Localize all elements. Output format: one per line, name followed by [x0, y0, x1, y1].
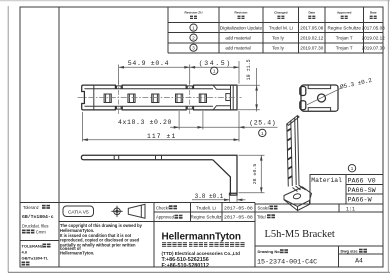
svg-text:2019.07.30: 2019.07.30: [300, 46, 323, 51]
svg-text:Date: Date: [308, 11, 315, 15]
svg-text:4x18.3 ±0.20: 4x18.3 ±0.20: [118, 119, 172, 126]
svg-text:(TTD) Electrical accessories C: (TTD) Electrical accessories Co.,Ltd: [162, 251, 241, 256]
svg-text:TOLERANZ/: TOLERANZ/: [22, 243, 46, 248]
revision table: [168, 7, 383, 53]
CATIA V5 box: [63, 206, 94, 217]
notch tab plugs: [117, 86, 122, 89]
svg-text:HellermannTyton.: HellermannTyton.: [60, 250, 94, 255]
leader line for dia 5.3: [307, 88, 341, 105]
svg-text:GB/T±1804-TL: GB/T±1804-TL: [22, 255, 49, 260]
svg-text:Check/: Check/: [156, 205, 170, 210]
projection symbol: [111, 204, 145, 218]
svg-text:Date: Date: [370, 11, 377, 15]
dimension 28 +-0.5 lines: [239, 155, 265, 193]
dimension 54.9 +-0.4 and (34.5) extension and dim lines: [119, 61, 239, 84]
svg-text:L5h-M5 Bracket: L5h-M5 Bracket: [265, 229, 335, 240]
svg-text:2017.05.08: 2017.05.08: [362, 26, 385, 31]
left slots (stadium shapes): [300, 87, 306, 96]
svg-text:4.6: 4.6: [22, 249, 28, 254]
svg-text:HellermannTyton: HellermannTyton: [162, 231, 241, 242]
svg-text:Revision: Revision: [235, 11, 248, 15]
inner rail lines: [84, 88, 213, 90]
left filing column line: [58, 7, 60, 267]
svg-text:PA66-SW: PA66-SW: [348, 187, 377, 195]
svg-text:28 ±0.5: 28 ±0.5: [252, 164, 258, 185]
dimension 19 +-1.5 lines: [238, 68, 260, 112]
revision rows: circled 1/2/3, descriptions, names, dates: [190, 24, 385, 51]
svg-text:2019.02.12: 2019.02.12: [300, 36, 323, 41]
flag note circle 1 under (34.5): [211, 67, 218, 74]
svg-text:add material: add material: [225, 46, 250, 51]
svg-text:15-2374-001-C4C: 15-2374-001-C4C: [257, 259, 317, 267]
dimension 3.8 +-0.1 lines: [192, 196, 246, 202]
right end cap: [230, 85, 232, 110]
svg-text:2017.05.08: 2017.05.08: [300, 26, 323, 31]
square holes: [104, 94, 230, 103]
svg-text:(34.5): (34.5): [199, 60, 232, 67]
svg-text:Scale/: Scale/: [258, 206, 270, 211]
svg-text:Toleranz: Toleranz: [23, 205, 39, 210]
svg-text:Material: Material: [311, 177, 342, 184]
paper bottom edge: [8, 271, 390, 273]
svg-text:3.8 ±0.1: 3.8 ±0.1: [195, 193, 224, 200]
svg-text:Title/: Title/: [257, 214, 267, 219]
svg-text:Regine Schultz: Regine Schultz: [191, 215, 223, 220]
copyright text block: [60, 223, 143, 255]
paper right edge: [387, 0, 389, 273]
svg-text:19 ±1.5: 19 ±1.5: [246, 59, 252, 80]
paper top edge: [0, 0, 390, 2]
centerlines: [78, 97, 242, 99]
partial slot near end cap: [226, 94, 231, 101]
svg-text:1: 1: [351, 166, 354, 171]
svg-text:Tex ly: Tex ly: [272, 46, 284, 51]
svg-text:2017-05-08: 2017-05-08: [224, 215, 253, 221]
svg-text:Revision ZU: Revision ZU: [185, 11, 204, 15]
svg-text:Trudel M. Li: Trudel M. Li: [269, 26, 293, 31]
svg-text:Tex ly: Tex ly: [272, 36, 284, 41]
svg-text:1: 1: [261, 131, 264, 136]
svg-text:2019.02.12: 2019.02.12: [362, 36, 385, 41]
svg-text:CATIA V5: CATIA V5: [68, 210, 89, 216]
svg-text:(25.4): (25.4): [249, 119, 276, 126]
svg-text:Cmm: Cmm: [36, 230, 47, 235]
svg-text:Approved: Approved: [337, 11, 352, 15]
top inner step: [308, 85, 330, 89]
svg-text:Druckdat. files: Druckdat. files: [22, 223, 49, 228]
svg-text:Drawing No: Drawing No: [258, 249, 281, 254]
svg-text:Changed: Changed: [274, 11, 287, 15]
svg-text:GB/T±1804-c: GB/T±1804-c: [22, 214, 54, 220]
paper left trim line: [7, 6, 9, 272]
svg-text:Trudeli. Li: Trudeli. Li: [196, 205, 216, 210]
svg-text:Trojan T: Trojan T: [336, 46, 353, 51]
svg-text:2019.07.30: 2019.07.30: [362, 46, 385, 51]
svg-text:add material: add material: [225, 36, 250, 41]
svg-text:2017-05-08: 2017-05-08: [224, 205, 253, 211]
svg-text:Regine Schultze: Regine Schultze: [327, 26, 361, 31]
svg-text:1:1: 1:1: [346, 206, 355, 212]
left rounded end: [82, 85, 85, 110]
svg-text:54.9 ±0.4: 54.9 ±0.4: [128, 60, 169, 67]
svg-text:PA66 V0: PA66 V0: [348, 177, 376, 185]
svg-text:Approved: Approved: [156, 215, 175, 220]
revision header labels: [185, 11, 377, 15]
left cap divider: [93, 85, 95, 110]
svg-text:117 ±1: 117 ±1: [147, 133, 176, 140]
svg-text:Dwg size: Dwg size: [341, 249, 359, 254]
center hole: [318, 94, 326, 102]
svg-text:1: 1: [213, 69, 216, 74]
svg-text:A4: A4: [355, 258, 363, 265]
svg-text:F:+86-510-5280112: F:+86-510-5280112: [162, 263, 210, 269]
bar outline top edge with notch gaps and right chamfer: [83, 85, 213, 89]
header CJK blobs: [190, 16, 377, 19]
bar bottom edge with notch gaps: [83, 106, 213, 110]
dimension 4x18.3, 117 +-1 and (25.4) lines: [83, 111, 278, 142]
svg-text:Trojan T: Trojan T: [336, 36, 353, 41]
svg-text:Digitalization Update: Digitalization Update: [220, 26, 263, 31]
